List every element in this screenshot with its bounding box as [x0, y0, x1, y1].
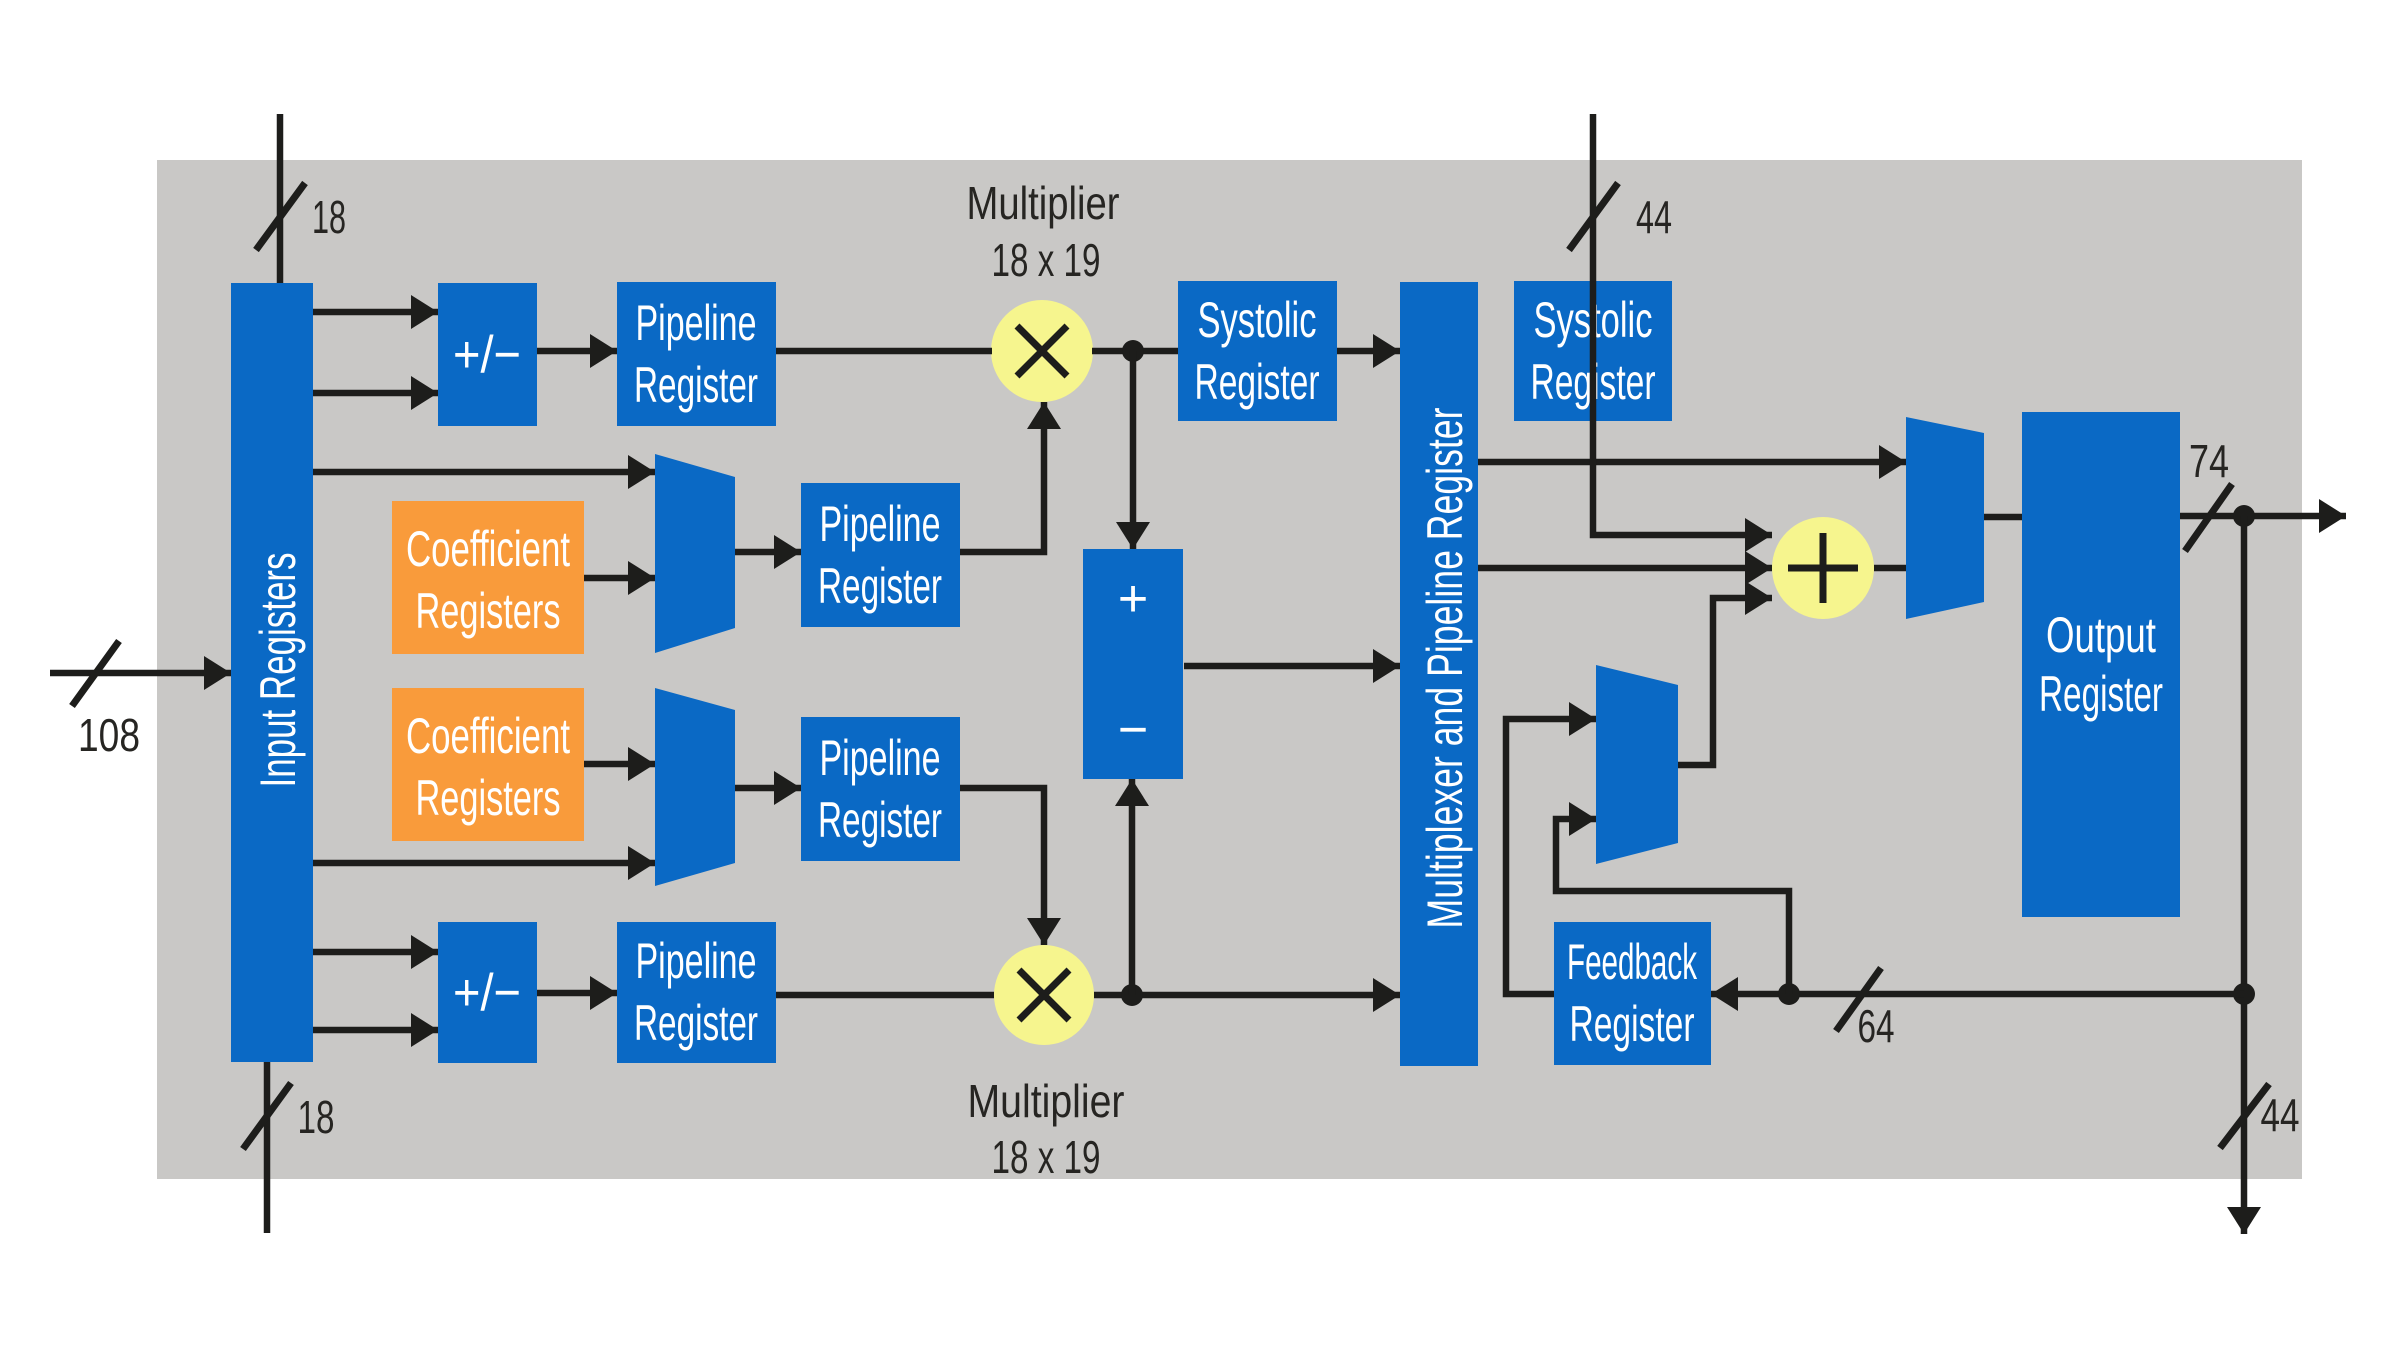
wire input bus 18 (top-left): [277, 114, 284, 283]
wire output feedback vertical to bottom bus 44: [2241, 516, 2248, 1234]
svg-text:+/−: +/−: [453, 326, 521, 384]
wire output bus 18 (bottom-left): [264, 1062, 271, 1233]
svg-text:18 x 19: 18 x 19: [992, 234, 1101, 286]
svg-text:Register: Register: [1195, 354, 1320, 410]
svg-text:18 x 19: 18 x 19: [992, 1131, 1101, 1183]
svg-text:Systolic: Systolic: [1198, 292, 1317, 348]
wire feedback bus tap to MUX3 lower input: [1556, 819, 1789, 994]
wire pipeline register to M1 lower input: [960, 402, 1044, 552]
svg-text:18: 18: [312, 191, 346, 243]
bus slash 18 (top-left): [256, 183, 305, 250]
wire feedback bus 64 to feedback register: [1711, 991, 2244, 998]
register "Input Registers": [231, 283, 313, 1062]
junction on feedback bus: [1778, 983, 1800, 1005]
svg-text:Feedback: Feedback: [1567, 934, 1698, 990]
svg-text:Input Registers: Input Registers: [250, 553, 306, 788]
svg-text:−: −: [1118, 701, 1148, 759]
svg-text:Coefficient: Coefficient: [406, 521, 570, 577]
svg-text:+/−: +/−: [453, 964, 521, 1022]
svg-text:Multiplier: Multiplier: [968, 1075, 1125, 1127]
wire adder-subtractor to multiplexer-pipeline register: [1184, 663, 1400, 670]
adder-subtractor block (+ / -): [1083, 549, 1183, 779]
svg-text:Register: Register: [1570, 996, 1695, 1052]
svg-text:64: 64: [1858, 1000, 1895, 1052]
wire adder A1 to MUX4: [1874, 565, 1906, 572]
wire +/- to pipeline register (top): [537, 348, 617, 355]
wire coefficient registers (lower) to MUX2: [584, 761, 655, 768]
wire M2 junction up to adder-subtractor -: [1129, 779, 1136, 995]
bus slash 18 (bottom-left): [243, 1083, 291, 1149]
wire +/- to pipeline register (bottom): [537, 990, 617, 997]
svg-text:Pipeline: Pipeline: [820, 730, 941, 786]
wire output register to output bus 74: [2180, 513, 2346, 520]
multiplier node M2 (yellow circle): [994, 945, 1094, 1045]
multiplexer MUX1 (upper input select): [655, 454, 735, 653]
multiply symbol X in M2: [1019, 970, 1069, 1020]
wire M2 output to multiplexer-pipeline register: [1094, 992, 1400, 999]
systolic register (right): [1514, 281, 1672, 421]
svg-text:Registers: Registers: [416, 583, 561, 639]
wire mux-pipeline register to adder A1: [1478, 565, 1772, 572]
svg-text:Output: Output: [2046, 607, 2156, 663]
svg-text:Register: Register: [634, 995, 758, 1051]
wire Input Registers to +/- top input B: [313, 390, 438, 397]
wire systolic register to multiplexer-pipeline register: [1337, 348, 1400, 355]
wire MUX3 output to adder A1: [1678, 598, 1772, 765]
multiplexer MUX2 (lower input select): [655, 688, 735, 886]
svg-text:44: 44: [2261, 1089, 2300, 1141]
wire Input Registers to MUX2: [313, 860, 655, 867]
wire M1 junction down to adder-subtractor +: [1130, 351, 1137, 549]
wire pipeline register to multiplier M1: [776, 348, 992, 355]
bus slash 108: [72, 641, 119, 706]
multiplexer MUX4 (output select): [1906, 417, 1984, 619]
bus slash 74: [2185, 484, 2232, 551]
wire pipeline register to M2 upper input: [960, 788, 1044, 945]
wire mux-pipeline register to MUX4: [1478, 459, 1906, 466]
adder node A1 (yellow circle): [1772, 517, 1874, 619]
wire MUX1 to pipeline register (upper middle): [735, 549, 801, 556]
svg-text:Coefficient: Coefficient: [406, 708, 570, 764]
svg-text:Pipeline: Pipeline: [636, 933, 757, 989]
wire pipeline register to multiplier M2: [776, 992, 994, 999]
wire M1 output to systolic register: [1092, 348, 1178, 355]
svg-text:18: 18: [298, 1091, 335, 1143]
junction feedback tap: [2233, 983, 2255, 1005]
wire Input Registers to +/- bottom input A: [313, 949, 438, 956]
pipeline register (bottom row): [617, 922, 776, 1063]
svg-text:Register: Register: [818, 792, 942, 848]
svg-text:Pipeline: Pipeline: [820, 496, 941, 552]
bus slash 44 (bottom-right): [2220, 1084, 2269, 1148]
svg-text:Register: Register: [2039, 666, 2163, 722]
svg-text:Register: Register: [634, 357, 758, 413]
pipeline register (upper middle): [801, 483, 960, 627]
svg-text:74: 74: [2189, 435, 2229, 487]
DSP block background panel: [157, 160, 2302, 1179]
multiply symbol X in M1: [1017, 326, 1067, 376]
svg-text:Register: Register: [818, 558, 942, 614]
pipeline register (top row): [617, 282, 776, 426]
bus slash 64: [1836, 968, 1881, 1031]
svg-text:Registers: Registers: [416, 770, 561, 826]
register "Multiplexer and Pipeline Register": [1400, 282, 1478, 1066]
coefficient registers (lower): [392, 688, 584, 841]
wire MUX4 to output register: [1984, 514, 2022, 521]
output register: [2022, 412, 2180, 917]
wire input bus 44 through systolic register to adder A1: [1593, 114, 1772, 535]
wire Input Registers to +/- top input A: [313, 309, 438, 316]
adder/subtractor unit +/- (top): [438, 283, 537, 426]
wire MUX2 to pipeline register (lower middle): [735, 785, 801, 792]
svg-text:108: 108: [78, 709, 140, 761]
pipeline register (lower middle): [801, 717, 960, 861]
multiplexer MUX3 (feedback select): [1596, 665, 1678, 864]
svg-text:Multiplier: Multiplier: [967, 177, 1120, 229]
wire Input Registers to MUX1: [313, 469, 655, 476]
wire Input Registers to +/- bottom input B: [313, 1027, 438, 1034]
svg-text:+: +: [1118, 570, 1148, 628]
coefficient registers (upper): [392, 501, 584, 654]
svg-text:44: 44: [1636, 191, 1672, 243]
wire feedback register output to MUX3 upper input: [1506, 719, 1596, 994]
junction at M1 output: [1122, 340, 1144, 362]
feedback register: [1554, 922, 1711, 1065]
svg-text:Pipeline: Pipeline: [636, 295, 757, 351]
systolic register (left): [1178, 281, 1337, 421]
multiplier node M1 (yellow circle): [991, 300, 1093, 402]
adder/subtractor unit +/- (bottom): [438, 922, 537, 1063]
wire coefficient registers (upper) to MUX1: [584, 575, 655, 582]
svg-text:Multiplexer and Pipeline Regis: Multiplexer and Pipeline Register: [1417, 408, 1473, 929]
plus symbol in A1: [1788, 533, 1858, 603]
wire input bus 108: [50, 670, 231, 677]
junction at M2 output: [1121, 984, 1143, 1006]
bus slash 44 (top): [1569, 183, 1618, 250]
junction on output bus: [2233, 505, 2255, 527]
